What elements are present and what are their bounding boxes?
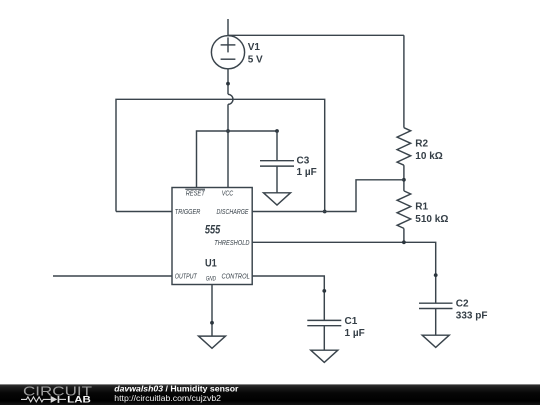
wire R2 bottom to junction: [403, 165, 405, 191]
label R1 510 kOhm: [415, 201, 448, 225]
wire RESET to C3: [197, 131, 278, 188]
svg-text:GND: GND: [206, 277, 217, 283]
wire VCC pin: [227, 104, 229, 187]
wire hop over trigger loop: [228, 94, 233, 104]
svg-text:10 kΩ: 10 kΩ: [415, 151, 442, 162]
capacitor C2: [419, 303, 453, 335]
svg-text:1 µF: 1 µF: [345, 328, 365, 339]
wire V1 top to R2 top: [228, 34, 404, 36]
wire R1 bottom to THRESHOLD net: [403, 228, 405, 242]
resistor R2: [397, 128, 411, 166]
resistor R1: [397, 191, 411, 229]
label V1 5 V: [248, 42, 263, 66]
svg-text:5 V: 5 V: [248, 55, 263, 66]
wire trigger loop top: [116, 99, 325, 211]
svg-text:LAB: LAB: [67, 395, 91, 405]
svg-text:R1: R1: [415, 201, 428, 212]
CircuitLab logo icon resistor+diode wire: [21, 396, 66, 403]
svg-text:CONTROL: CONTROL: [222, 274, 250, 281]
ground under C2: [422, 335, 449, 347]
wire OUTPUT pin: [53, 275, 172, 277]
svg-text:VCC: VCC: [222, 190, 234, 197]
voltage source V1: [211, 19, 244, 69]
svg-text:RESET: RESET: [186, 190, 206, 197]
node C2 top terminal: [434, 273, 438, 277]
svg-text:R2: R2: [415, 139, 428, 150]
ground under C1: [311, 350, 338, 362]
wire CONTROL net: [252, 276, 324, 320]
RESET overline: [185, 188, 205, 190]
svg-text:C1: C1: [345, 316, 358, 327]
ground under C3: [264, 193, 291, 205]
ground under U1 GND: [199, 336, 226, 348]
svg-text:http://circuitlab.com/cujzvb2: http://circuitlab.com/cujzvb2: [114, 393, 221, 403]
svg-text:TRIGGER: TRIGGER: [175, 209, 201, 216]
node C1 top terminal: [322, 289, 326, 293]
node THRESHOLD/R1 junction: [402, 240, 406, 244]
node V1 minus terminal: [226, 82, 230, 86]
label C1 1 uF: [345, 316, 365, 339]
svg-text:V1: V1: [248, 42, 261, 53]
svg-text:DISCHARGE: DISCHARGE: [217, 209, 249, 216]
node discharge/trigger junction: [323, 210, 327, 214]
svg-text:OUTPUT: OUTPUT: [175, 274, 198, 281]
wire GND pin: [211, 285, 213, 337]
svg-text:davwalsh03 / Humidity sensor: davwalsh03 / Humidity sensor: [114, 383, 239, 393]
svg-text:555: 555: [205, 222, 221, 236]
wire TRIGGER pin: [116, 211, 172, 213]
svg-text:U1: U1: [205, 257, 217, 269]
node R2/R1 junction: [402, 178, 406, 182]
node C3 top terminal: [275, 129, 279, 133]
label C3 1 uF: [297, 155, 317, 178]
label R2 10 kOhm: [415, 139, 442, 163]
IC U1 555 box: [172, 188, 252, 285]
555 pin labels: [175, 190, 250, 282]
wire THRESHOLD net: [252, 242, 436, 303]
svg-text:C2: C2: [456, 299, 469, 310]
svg-text:C3: C3: [297, 155, 310, 166]
svg-text:510 kΩ: 510 kΩ: [415, 214, 448, 225]
capacitor C1: [307, 320, 341, 350]
wire DISCHARGE to R1/R2 junction: [252, 180, 404, 212]
wire down right to R2: [403, 35, 405, 127]
svg-text:THRESHOLD: THRESHOLD: [214, 240, 249, 247]
wire V1 bottom: [227, 69, 229, 95]
svg-text:333 pF: 333 pF: [456, 311, 488, 322]
node VCC / RESET / C3 junction: [226, 129, 230, 133]
label C2 333 pF: [456, 299, 488, 322]
svg-text:1 µF: 1 µF: [297, 167, 317, 178]
node GND terminal: [210, 321, 214, 325]
capacitor C3: [260, 131, 294, 193]
